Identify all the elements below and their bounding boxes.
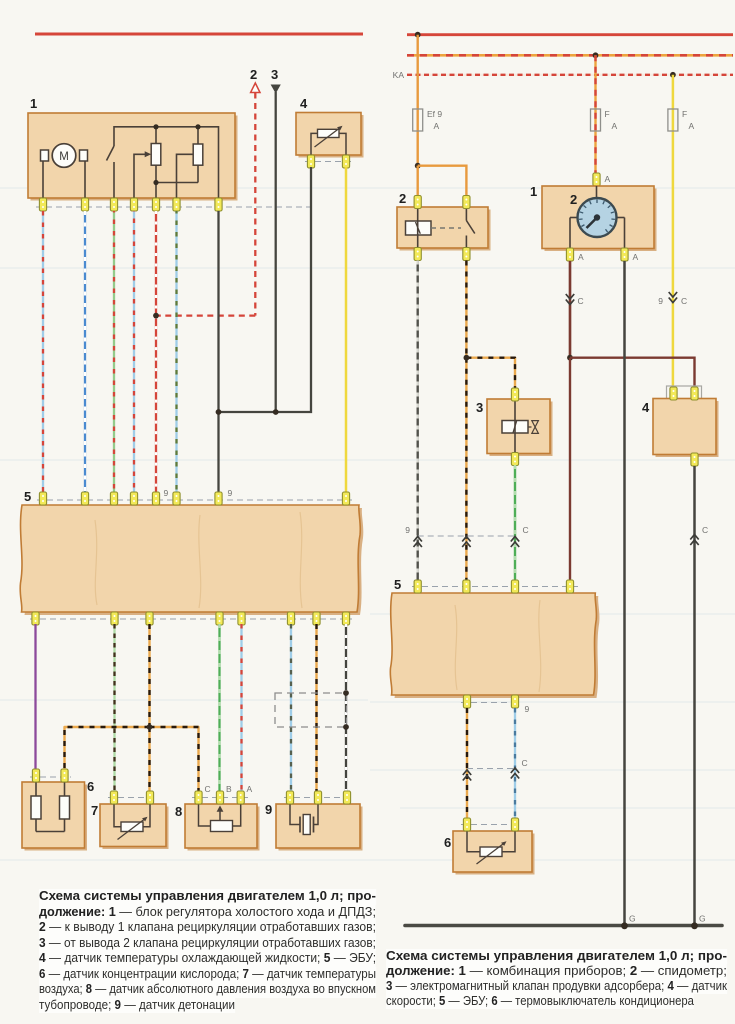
power bus solid red (right) <box>407 33 733 36</box>
wire brown from cluster <box>569 261 571 358</box>
resistor R2 in block 1 <box>197 127 199 144</box>
svg-text:A: A <box>689 121 695 131</box>
power bus line (left column top) <box>35 33 363 36</box>
connector pins of block 7 <box>110 791 153 804</box>
wire orange/black ECU to thermo switch <box>466 708 468 818</box>
svg-text:6: 6 <box>444 835 451 850</box>
svg-text:Ef 9: Ef 9 <box>427 109 442 119</box>
block 4 box (speed sensor) <box>656 401 719 457</box>
svg-text:9: 9 <box>228 488 233 498</box>
wire black from speed sensor to ground <box>693 466 696 924</box>
block 5 box (ECU left) <box>23 508 363 615</box>
junction dots on black node <box>216 409 222 415</box>
svg-text:2: 2 <box>570 192 577 207</box>
svg-text:C: C <box>205 784 211 794</box>
top connector pin of cluster <box>593 173 600 186</box>
break symbol on yellow wire <box>669 298 677 303</box>
motor lead right wire <box>84 161 86 198</box>
switch S1 in block 1 <box>107 146 115 161</box>
block 6 box (oxygen sensor) <box>25 785 88 851</box>
tap wire to R2 <box>177 154 194 198</box>
thermistor of block 4 <box>311 133 318 155</box>
node D junction dot <box>567 355 573 361</box>
internal top bus wire of block 1 <box>114 127 219 198</box>
connector dashed line below left ECU <box>30 618 352 620</box>
shield junction dots <box>343 690 349 696</box>
connector pins of block 9 <box>286 791 350 804</box>
break symbol on speed sensor wire <box>690 535 698 540</box>
block 7 box (air temperature sensor) <box>103 807 169 850</box>
speedometer gauge <box>596 186 598 200</box>
connector dashed line of block 8 <box>192 797 249 799</box>
svg-text:C: C <box>702 525 708 535</box>
wire brown node D to ECU <box>569 358 571 580</box>
wire blue/red (to MAP sensor A) <box>240 624 242 791</box>
connector dashed line of block 9 <box>284 797 353 799</box>
wire orange/black node B left branch <box>65 727 150 773</box>
wire orange/black node B right branch <box>150 727 199 791</box>
shield box of knock sensor cable <box>275 693 347 727</box>
svg-text:4: 4 <box>642 400 650 415</box>
bottom connector pin of speed sensor <box>691 453 698 466</box>
bottom connector pins of relay <box>414 248 470 261</box>
svg-text:9: 9 <box>164 488 169 498</box>
svg-text:F: F <box>605 109 610 119</box>
relay switch contact <box>465 207 467 221</box>
svg-text:A: A <box>434 121 440 131</box>
connector dashed line under block 1 <box>36 206 312 208</box>
wire block 4 right pin yellow <box>345 167 348 495</box>
break symbol blue lower <box>511 768 519 773</box>
block 5 box (ECU right) <box>393 596 599 698</box>
wire black from cluster to ground <box>623 261 626 924</box>
connector dashed line of block 7 <box>108 797 156 799</box>
wiper arrow of block 8 <box>219 811 221 821</box>
bottom link wire in block 6 <box>36 831 65 833</box>
wire orange/black from relay <box>465 261 467 358</box>
fuse Ef9 <box>413 109 423 131</box>
svg-text:5: 5 <box>24 489 31 504</box>
svg-text:A: A <box>633 252 639 262</box>
block 3 box (adsorber purge valve) <box>490 402 553 457</box>
svg-text:9: 9 <box>405 525 410 535</box>
svg-text:9: 9 <box>265 802 272 817</box>
svg-text:9: 9 <box>658 296 663 306</box>
bottom connector pins of cluster <box>566 248 628 261</box>
faint scan artifact lines <box>0 188 735 860</box>
block 2 box (relay) <box>400 210 491 251</box>
node C junction dot <box>464 355 470 361</box>
svg-text:4: 4 <box>300 96 308 111</box>
svg-text:M: M <box>59 151 69 163</box>
svg-text:1: 1 <box>30 96 37 111</box>
valve symbol of block 3 <box>528 426 532 428</box>
bottom node wire of block 1 <box>156 182 198 184</box>
wire yellow/red from bus to cluster <box>594 55 596 174</box>
wire pin4 blue/red <box>133 211 135 495</box>
wire orange/black node B down <box>148 727 150 791</box>
node B junction dot <box>147 724 153 730</box>
connector pins of thermo switch <box>463 818 518 831</box>
resistor of block 8 <box>199 804 211 826</box>
wire pin2 blue/white <box>84 211 86 495</box>
wire orange/black (to knock sensor) <box>315 624 317 820</box>
connector dashed line below right ECU <box>461 702 521 704</box>
connector dashed line of block 6 <box>30 776 71 778</box>
caption text right column <box>386 949 727 965</box>
wire pin6 blue/green <box>175 211 177 495</box>
resistor R1 (throttle potentiometer) <box>155 127 157 144</box>
connector dashed line above right ECU <box>412 586 578 588</box>
svg-text:G: G <box>629 914 636 924</box>
wire green from purge valve <box>514 465 516 580</box>
svg-text:3: 3 <box>476 400 483 415</box>
fuse F (right) <box>668 109 678 131</box>
sensing element right of block 6 <box>64 782 66 796</box>
wire black/white shield lead <box>345 624 347 820</box>
wire gray/white from relay to ECU <box>417 261 419 581</box>
connector housing of speed sensor <box>667 386 702 400</box>
caption text left column <box>39 889 376 905</box>
power bus KA red/white dashed <box>407 74 733 76</box>
ground junction dots <box>621 922 628 929</box>
piezo element of block 9 <box>290 804 300 825</box>
svg-text:8: 8 <box>175 804 182 819</box>
svg-text:C: C <box>523 525 529 535</box>
bottom connector pins of right ECU <box>463 695 518 708</box>
motor lead left wire <box>42 161 44 198</box>
connector pins of block 1 <box>39 198 222 211</box>
wire pin1 blue/red <box>42 211 44 495</box>
svg-text:A: A <box>247 784 253 794</box>
wire solid green (to MAP sensor B) <box>218 624 220 791</box>
break symbol green wire <box>511 537 519 542</box>
wire node A down to ECU <box>155 316 157 495</box>
thermo resistor of block 6 <box>467 831 480 852</box>
wire orange/black node C to ECU <box>465 358 467 580</box>
wire from block 4 left pin (black) <box>219 167 312 412</box>
connector pins of block 4 <box>307 155 349 168</box>
block 9 box (knock sensor) <box>279 807 363 851</box>
svg-text:C: C <box>681 296 687 306</box>
break symbol orange wire <box>462 537 470 542</box>
purge valve solenoid <box>502 421 528 434</box>
block 6 box (AC thermo switch) <box>456 834 535 875</box>
junction dot on KA bus <box>670 72 676 78</box>
svg-text:A: A <box>612 121 618 131</box>
relay coil <box>406 221 432 235</box>
top connector pins of left ECU <box>39 492 349 505</box>
connector dashed line above left ECU <box>37 499 352 501</box>
connector pins of block 6 <box>32 769 68 782</box>
svg-text:7: 7 <box>91 803 98 818</box>
wire yellow from KA bus to speed sensor <box>672 75 675 389</box>
svg-text:A: A <box>605 174 611 184</box>
thermistor of block 7 <box>114 804 121 827</box>
heater element left of block 6 <box>35 782 37 796</box>
svg-text:5: 5 <box>394 577 401 592</box>
wire green/brown (to air temp sensor) <box>113 624 115 791</box>
node A junction dot <box>153 313 159 319</box>
svg-text:9: 9 <box>525 704 530 714</box>
svg-text:3: 3 <box>271 67 278 82</box>
wire pin5 red/white to node A <box>155 211 157 316</box>
ground bus <box>405 924 722 928</box>
junction dots on block 1 buses <box>153 124 158 129</box>
svg-text:G: G <box>699 914 706 924</box>
svg-text:6: 6 <box>87 779 94 794</box>
svg-text:1: 1 <box>530 184 537 199</box>
relay actuation dashed link <box>431 227 461 229</box>
connector pins of block 8 <box>195 791 244 804</box>
wire blue ECU to thermo switch <box>514 708 516 818</box>
block 1 box (idle air regulator and TPS unit) <box>31 116 238 201</box>
break symbol gray wire <box>414 537 422 542</box>
svg-text:2: 2 <box>250 67 257 82</box>
svg-text:F: F <box>682 109 687 119</box>
svg-text:C: C <box>522 758 528 768</box>
wire orange split to relay <box>417 166 419 198</box>
break group dashed line <box>418 535 515 537</box>
break group dashed line lower <box>467 768 515 770</box>
connector dashed line of thermo switch <box>461 824 521 826</box>
svg-text:A: A <box>578 252 584 262</box>
block 1 box (instrument cluster) <box>545 189 657 252</box>
wire orange/black branch to purge valve <box>466 358 515 389</box>
svg-text:B: B <box>226 784 232 794</box>
svg-text:C: C <box>578 296 584 306</box>
wire blue/dark (to knock sensor) <box>290 624 292 820</box>
break symbol on brown wire <box>566 300 574 305</box>
wire pin3 green/red <box>113 211 115 495</box>
power bus yellow/red dashed <box>407 54 733 57</box>
wire 3 (black, from EGR valve terminal 2) <box>271 85 281 94</box>
bottom connector pin of block 3 <box>511 453 518 466</box>
wire purple (to oxygen sensor) <box>34 624 36 773</box>
wire 2 (red dashed, to EGR valve terminal 1) <box>251 83 260 93</box>
svg-text:KA: KA <box>393 70 405 80</box>
wire orange from red bus to fuse <box>417 35 419 166</box>
top connector pins of speed sensor <box>670 387 698 400</box>
wire pin7 black lower segment <box>217 412 219 495</box>
svg-text:2: 2 <box>399 191 406 206</box>
break symbol orange lower <box>463 770 471 775</box>
motor M of block 1 <box>41 150 49 161</box>
wire orange/black to node B <box>148 624 150 727</box>
top connector pins of relay <box>414 196 470 209</box>
block 4 box (coolant temperature sensor) <box>299 115 364 158</box>
wire brown branch to speed sensor <box>570 358 695 389</box>
wiper arrow of R1 <box>134 154 147 198</box>
fuse F (middle) <box>591 109 601 131</box>
junction dot on yellow/red bus <box>593 52 599 58</box>
block 8 box (absolute pressure sensor) <box>188 807 260 851</box>
connector dashed line under block 4 <box>305 161 352 163</box>
top connector pins of right ECU <box>414 580 574 593</box>
bottom connector pins of left ECU <box>32 612 350 625</box>
top connector pin of block 3 <box>511 388 518 401</box>
junction dot on red bus <box>415 32 421 38</box>
junction dot under fuse Ef9 <box>415 163 421 169</box>
wire pin7 black <box>217 211 219 412</box>
